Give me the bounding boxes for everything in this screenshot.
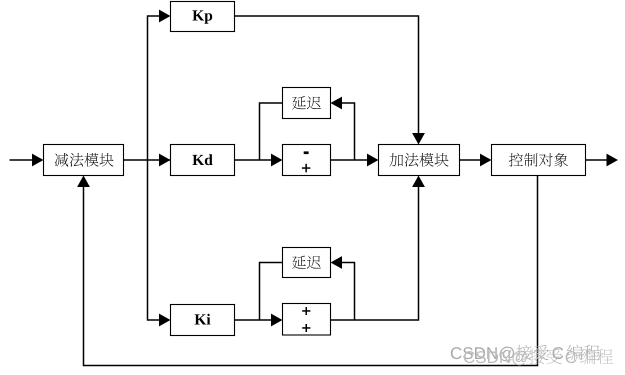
block: difference node - / + [283, 145, 331, 176]
wire: Kp output to adder top [235, 16, 419, 134]
wire: delay2 output to plus-plus input [260, 263, 283, 321]
wire: plus-plus output to adder bottom [331, 187, 419, 320]
arrowhead: system output [607, 154, 619, 167]
arrowhead: input into subtractor block [32, 154, 44, 167]
arrowhead: into Ki block [159, 314, 171, 327]
wire: subtractor output to Kd (error signal e) [124, 159, 273, 161]
arrowhead: into delay1 right side [331, 97, 343, 110]
watermark: CSDN@ text copy 1 [451, 345, 600, 362]
block: subtractor 减法模块 [44, 145, 124, 176]
wire: input signal into subtractor [10, 159, 34, 161]
block: integral gain Ki [171, 305, 235, 336]
watermark: CSDN@ text copy 2 [464, 349, 613, 366]
arrowhead: down into adder top [412, 133, 425, 145]
wire: adder output to plant [460, 159, 482, 161]
block: accumulator node + / + [283, 304, 331, 336]
wire: Ki output to plus-plus node [235, 319, 273, 321]
block: delay 延迟 (derivative path) [283, 88, 331, 119]
arrowhead: into delay2 right side [331, 256, 343, 269]
wire: minus-plus node output toward adder [331, 159, 369, 161]
wire: tap up to delay2 input [342, 263, 355, 321]
wire: delay1 output to subtract-node input [260, 103, 283, 160]
block: adder 加法模块 [379, 145, 460, 176]
wire: tap up to delay1 input [342, 103, 355, 160]
arrowhead: into plus-plus node [271, 314, 283, 327]
wire: branch to Kp [148, 15, 161, 17]
arrowhead: into minus-plus node [271, 154, 283, 167]
wire: plant output [586, 159, 608, 161]
arrowhead: into plant block [480, 154, 492, 167]
block: derivative gain Kd [171, 145, 235, 176]
wire: branch to Ki [148, 319, 161, 321]
wire: feedback from plant bottom to subtractor [84, 176, 538, 366]
block: delay 延迟 (integral path) [283, 248, 331, 278]
arrowhead: into Kp block [159, 10, 171, 23]
arrowhead: feedback up into subtractor bottom [77, 176, 90, 188]
arrowhead: up into adder bottom [412, 176, 425, 188]
block: plant 控制对象 [492, 145, 586, 176]
node: error-signal branch point [147, 15, 149, 320]
arrowhead: into Kd block [159, 154, 171, 167]
arrowhead: into adder block [367, 154, 379, 167]
block: proportional gain Kp [171, 2, 235, 32]
